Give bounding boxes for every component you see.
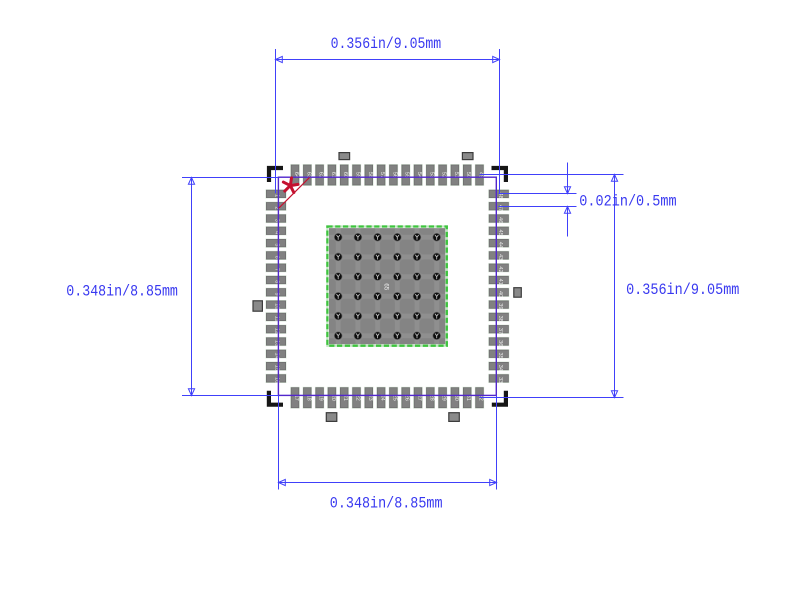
pad 52 (438, 165, 447, 186)
pad 6 (266, 251, 286, 259)
svg-text:40: 40 (497, 291, 503, 297)
pad 37 (489, 325, 509, 334)
pad 2 (266, 202, 286, 210)
pin-1 asterisk marker (283, 178, 298, 193)
thermal via 7 (334, 253, 342, 261)
pad 61 (328, 165, 337, 186)
svg-text:34: 34 (497, 365, 503, 371)
pad 41 (489, 276, 509, 285)
pad 42 (489, 264, 509, 273)
svg-text:45: 45 (497, 229, 503, 235)
pad 7 (266, 264, 286, 272)
assembly corner mark top-left (269, 168, 283, 182)
svg-text:0.348in/8.85mm: 0.348in/8.85mm (66, 282, 178, 300)
thermal via 19 (334, 292, 342, 300)
svg-text:46: 46 (497, 217, 503, 223)
thermal via 4 (393, 233, 401, 241)
thermal via 31 (334, 332, 342, 340)
thermal via 27 (374, 312, 382, 320)
svg-text:39: 39 (497, 303, 503, 309)
pad 29 (438, 387, 447, 408)
assembly corner mark bottom-right (492, 391, 506, 405)
pad 24 (377, 387, 386, 408)
dimension pitch 0.02in/0.5mm (499, 163, 677, 237)
pad 46 (489, 214, 509, 223)
pad 4 (266, 227, 286, 235)
pad 36 (489, 337, 509, 346)
fiducial mark left (253, 301, 262, 311)
pad 17 (291, 387, 300, 408)
fiducial mark bottom-left (326, 413, 337, 422)
pad 49 (475, 165, 484, 186)
thermal via 11 (413, 253, 421, 261)
thermal via 25 (334, 312, 342, 320)
pad 48 (489, 190, 509, 199)
pad 40 (489, 288, 509, 297)
thermal via 35 (413, 332, 421, 340)
pad 47 (489, 202, 509, 211)
thermal via 26 (354, 312, 362, 320)
assembly corner mark top-right (492, 168, 506, 182)
package body outline (278, 177, 496, 395)
thermal via 29 (413, 312, 421, 320)
thermal via 20 (354, 292, 362, 300)
thermal via 24 (433, 292, 441, 300)
thermal via 5 (413, 233, 421, 241)
pad 60 (340, 165, 349, 186)
svg-text:0.348in/8.85mm: 0.348in/8.85mm (330, 494, 443, 512)
svg-text:38: 38 (497, 316, 503, 322)
pad 13 (266, 337, 286, 346)
fiducial mark right (514, 288, 522, 298)
thermal via 15 (374, 273, 382, 281)
pad 11 (266, 313, 286, 322)
svg-text:0.02in/0.5mm: 0.02in/0.5mm (579, 192, 676, 210)
pad 43 (489, 251, 509, 260)
pad 32 (475, 387, 484, 408)
fiducial mark bottom-right (449, 413, 460, 422)
svg-text:44: 44 (497, 242, 503, 248)
thermal via 34 (393, 332, 401, 340)
thermal via 36 (433, 332, 441, 340)
pad 58 (365, 165, 374, 186)
thermal via 14 (354, 273, 362, 281)
thermal via 9 (374, 253, 382, 261)
pad 28 (426, 387, 435, 408)
pad 38 (489, 313, 509, 322)
pad 1 (266, 190, 286, 198)
pad 19 (315, 387, 324, 408)
pad 59 (352, 165, 361, 186)
pad 50 (463, 165, 472, 186)
pad 23 (365, 387, 374, 408)
svg-text:37: 37 (497, 328, 503, 334)
svg-text:65: 65 (383, 283, 390, 291)
thermal via 18 (433, 273, 441, 281)
svg-text:42: 42 (497, 266, 503, 272)
thermal via 28 (393, 312, 401, 320)
pad 22 (352, 387, 361, 408)
pad 39 (489, 300, 509, 309)
pad 62 (315, 165, 324, 186)
thermal via 3 (374, 233, 382, 241)
pad 10 (266, 300, 286, 309)
pad 8 (266, 276, 286, 284)
pad 26 (401, 387, 410, 408)
pad 57 (377, 165, 386, 186)
thermal via 22 (393, 292, 401, 300)
fiducial mark top-left (339, 153, 350, 160)
svg-text:0.356in/9.05mm: 0.356in/9.05mm (626, 281, 739, 299)
pad 25 (389, 387, 398, 408)
thermal pad 65 (exposed pad with paste grid) (321, 220, 454, 353)
svg-text:0.356in/9.05mm: 0.356in/9.05mm (331, 35, 442, 53)
pad 64 (291, 165, 300, 186)
dimension right 0.356in/9.05mm (480, 175, 740, 398)
pad 53 (426, 165, 435, 186)
thermal via 17 (413, 273, 421, 281)
svg-text:36: 36 (497, 340, 503, 346)
thermal via 23 (413, 292, 421, 300)
thermal via 1 (334, 233, 342, 241)
thermal via 10 (393, 253, 401, 261)
pad 21 (340, 387, 349, 408)
svg-text:35: 35 (497, 352, 503, 358)
thermal via 21 (374, 292, 382, 300)
pad 27 (414, 387, 423, 408)
pad 63 (303, 165, 312, 186)
pad 30 (451, 387, 460, 408)
pad 31 (463, 387, 472, 408)
thermal via 16 (393, 273, 401, 281)
pad 18 (303, 387, 312, 408)
thermal via 2 (354, 233, 362, 241)
pad 3 (266, 214, 286, 222)
pad 51 (451, 165, 460, 186)
pad 54 (414, 165, 423, 186)
pad 35 (489, 350, 509, 359)
pad 34 (489, 362, 509, 371)
svg-text:43: 43 (497, 254, 503, 260)
svg-text:41: 41 (497, 279, 503, 285)
assembly corner mark bottom-left (269, 391, 283, 405)
thermal via 13 (334, 273, 342, 281)
svg-text:33: 33 (497, 377, 503, 383)
pad 5 (266, 239, 286, 247)
svg-text:47: 47 (497, 205, 503, 211)
pad 12 (266, 325, 286, 334)
thermal via 12 (433, 253, 441, 261)
pad 14 (266, 350, 286, 359)
pin-1 indicator line (279, 177, 310, 208)
fiducial mark top-right (462, 153, 473, 160)
dimension top 0.356in/9.05mm (276, 35, 500, 194)
pad 44 (489, 239, 509, 248)
thermal via 32 (354, 332, 362, 340)
thermal via 8 (354, 253, 362, 261)
pad 45 (489, 227, 509, 236)
pad 33 (489, 374, 509, 383)
thermal via 30 (433, 312, 441, 320)
dimension bottom 0.348in/8.85mm (279, 396, 497, 513)
thermal via 33 (374, 332, 382, 340)
dimension left 0.348in/8.85mm (66, 178, 278, 396)
pad 20 (328, 387, 337, 408)
pad 16 (266, 374, 286, 383)
pad 15 (266, 362, 286, 371)
thermal via 6 (433, 233, 441, 241)
pad 9 (266, 288, 286, 296)
pad 56 (389, 165, 398, 186)
pad 55 (401, 165, 410, 186)
